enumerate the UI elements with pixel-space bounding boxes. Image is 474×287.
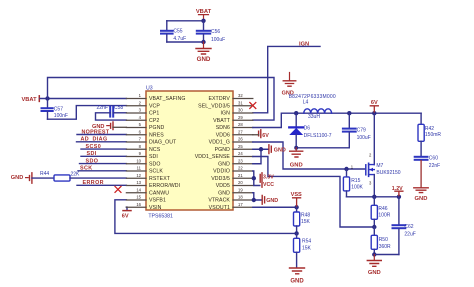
svg-text:6V: 6V [262, 133, 269, 139]
power port GND (pin18 VTRACK) [262, 195, 278, 204]
svg-text:100R: 100R [378, 213, 390, 219]
svg-text:B82472P6333M000: B82472P6333M000 [289, 94, 336, 100]
node pin18 junction [252, 198, 256, 202]
transistor M7 [351, 153, 401, 186]
wire IGN [253, 46, 320, 112]
svg-text:100nF: 100nF [54, 113, 68, 119]
wire VDDIO/VDD3-5/VDD5 tie to VCC [253, 171, 260, 186]
wire SDO [80, 163, 127, 165]
capacitor C62 [393, 197, 416, 255]
wire NOPRST [77, 134, 126, 136]
svg-text:22uF: 22uF [404, 231, 415, 237]
svg-text:GND: GND [368, 270, 381, 276]
svg-text:SCLK: SCLK [149, 169, 163, 175]
svg-text:SDN6: SDN6 [216, 125, 230, 131]
svg-text:C58: C58 [114, 105, 123, 111]
svg-text:IGN: IGN [220, 111, 230, 117]
diode D6 [289, 113, 332, 148]
svg-text:18: 18 [238, 195, 243, 200]
power port VBAT (left) [22, 96, 40, 103]
svg-text:GND: GND [218, 162, 230, 168]
wire C62 bottom to R50 bottom [374, 254, 399, 256]
svg-text:GND: GND [11, 175, 23, 181]
capacitor C56 [197, 21, 225, 43]
svg-text:17: 17 [238, 202, 243, 207]
wire AD_DIAG [77, 141, 127, 143]
svg-text:VDDIO: VDDIO [213, 169, 230, 175]
svg-text:VDD6: VDD6 [216, 133, 230, 139]
svg-text:SDI: SDI [149, 154, 158, 160]
power port VSS [291, 192, 302, 207]
svg-text:R48: R48 [301, 213, 310, 219]
wire source node bus [347, 196, 399, 198]
IC right pins 32-17 [233, 99, 253, 208]
node D6 anode/gnd [294, 146, 298, 150]
svg-text:M7: M7 [376, 163, 383, 169]
wire SCK [78, 170, 126, 172]
ground GND (under D6) [290, 148, 303, 169]
svg-text:VCC: VCC [263, 182, 274, 188]
svg-text:24: 24 [238, 151, 243, 156]
power port GND (left, at R44) [11, 173, 32, 183]
capacitor C58 [96, 105, 127, 120]
capacitor C79 [343, 113, 371, 148]
svg-text:DIAG_OUT: DIAG_OUT [149, 140, 177, 146]
wire VSOUT1 pin17 to VSS node [253, 206, 297, 208]
svg-text:C55: C55 [173, 29, 182, 35]
wire VDD1_G pin26 to gate [253, 142, 366, 169]
power port GND (pin25) [269, 145, 286, 154]
ground GND (under C60) [414, 161, 428, 203]
svg-text:31: 31 [238, 100, 243, 105]
wire SDN6 pin28 to switch node [253, 113, 421, 127]
capacitor C60 [415, 156, 441, 169]
wire VSIN pin16 [125, 207, 128, 210]
svg-text:VDD5: VDD5 [216, 183, 230, 189]
resistor R44 [40, 171, 80, 181]
svg-text:CP2: CP2 [149, 118, 159, 124]
svg-text:VTRACK: VTRACK [208, 198, 230, 204]
node C56 bottom [201, 40, 205, 44]
node source/R46 [372, 195, 376, 199]
wire M7 source [373, 175, 375, 197]
no-connect X pin14 CANWU [115, 186, 121, 192]
svg-text:C60: C60 [429, 156, 438, 162]
svg-text:R50: R50 [379, 237, 388, 243]
svg-text:VSIN: VSIN [149, 205, 162, 211]
node divider mid [372, 225, 376, 229]
svg-text:27: 27 [238, 129, 243, 134]
node VSS junction [294, 205, 298, 209]
svg-text:15: 15 [136, 195, 141, 200]
power port 1.2V [392, 186, 403, 197]
svg-text:VDD1_SENSE: VDD1_SENSE [195, 154, 231, 160]
svg-text:GND: GND [274, 147, 286, 153]
svg-text:R15: R15 [351, 178, 360, 184]
svg-text:VBAT: VBAT [22, 97, 38, 103]
svg-text:NCS: NCS [149, 147, 161, 153]
wire VDD1_SENSE pin24 to divider node [253, 157, 374, 228]
svg-text:21: 21 [238, 173, 243, 178]
wire ERROR [77, 184, 126, 186]
svg-text:R44: R44 [40, 171, 49, 177]
IC left pins 1-16 [126, 99, 146, 208]
svg-text:RSTEXT: RSTEXT [149, 176, 171, 182]
resistor R15 [343, 169, 363, 197]
svg-text:U3: U3 [146, 86, 153, 92]
svg-text:GND: GND [290, 278, 304, 284]
IC right pin numbers [238, 93, 243, 207]
ground GND (under R50) [367, 255, 381, 277]
IC left pin names [149, 96, 185, 211]
svg-text:C79: C79 [357, 128, 366, 134]
svg-text:30: 30 [238, 108, 243, 113]
svg-text:VSFB1: VSFB1 [149, 198, 166, 204]
svg-text:BUK92150: BUK92150 [376, 170, 400, 176]
svg-text:VBATT: VBATT [213, 118, 231, 124]
node VBAT/C56 top [201, 19, 205, 23]
svg-text:3.3V: 3.3V [263, 175, 274, 181]
svg-text:11: 11 [137, 166, 142, 171]
svg-text:L4: L4 [303, 100, 309, 106]
svg-text:NRES: NRES [149, 133, 164, 139]
svg-text:SDO: SDO [149, 162, 161, 168]
svg-text:23: 23 [238, 158, 243, 163]
no-connect X pin31 SEL_VDD3/5 [250, 103, 256, 109]
svg-text:ERROR/WDI: ERROR/WDI [149, 183, 180, 189]
svg-text:25: 25 [238, 144, 243, 149]
svg-text:PGND: PGND [149, 125, 165, 131]
wire GND to R44 [32, 177, 54, 179]
svg-text:22nF: 22nF [429, 163, 440, 169]
node feedback junction [294, 231, 298, 235]
svg-text:360R: 360R [379, 244, 391, 250]
wire top cap bus [167, 20, 204, 22]
svg-text:15K: 15K [302, 245, 312, 251]
node R50 bottom [372, 252, 376, 256]
svg-text:VSOUT1: VSOUT1 [209, 205, 230, 211]
power port GND (pin5 PGND) [92, 122, 126, 130]
svg-text:13: 13 [136, 180, 141, 185]
svg-text:100K: 100K [351, 185, 363, 191]
svg-text:C57: C57 [54, 106, 63, 112]
inductor L4 [289, 94, 336, 120]
resistor R54 [294, 233, 312, 267]
svg-text:GND: GND [415, 196, 428, 202]
svg-text:CANWU: CANWU [149, 191, 169, 197]
svg-text:100uF: 100uF [211, 37, 225, 43]
wire M7 drain [373, 113, 375, 164]
svg-text:150mR: 150mR [425, 132, 442, 138]
capacitor C55 [161, 21, 186, 42]
node gate junction [344, 167, 348, 171]
resistor R50 [371, 227, 391, 255]
svg-text:16: 16 [136, 202, 141, 207]
svg-text:R54: R54 [302, 238, 311, 244]
node 6V rail / M7 drain [372, 111, 376, 115]
svg-text:TPS65381: TPS65381 [148, 214, 173, 220]
svg-text:VDD3/5: VDD3/5 [211, 176, 230, 182]
svg-text:14: 14 [136, 187, 141, 192]
power port VCC 3.3V [260, 173, 274, 188]
resistor R48 [294, 207, 311, 233]
svg-text:6V: 6V [122, 214, 129, 220]
svg-text:D6: D6 [304, 126, 311, 132]
svg-text:VDD1_G: VDD1_G [209, 140, 230, 146]
svg-text:22K: 22K [71, 172, 81, 178]
wire C57 bottom to VCP pin2 [48, 106, 127, 120]
wire GND pin19 / VTRACK pin18 tie [253, 193, 262, 200]
wire diode/C79 ground bus [296, 147, 349, 149]
svg-text:GND: GND [218, 191, 230, 197]
svg-text:PGND: PGND [215, 147, 231, 153]
power port 6V (pin27 VDD6) [253, 130, 269, 139]
node pin21 VCC junction [252, 176, 256, 180]
ground GND (under R54) [290, 268, 305, 284]
svg-text:GND: GND [197, 56, 211, 63]
wire R44 to RSTEXT pin12 [70, 177, 126, 179]
svg-text:19: 19 [238, 187, 243, 192]
svg-text:12: 12 [136, 173, 141, 178]
IC left pin numbers [136, 93, 141, 207]
svg-text:GND: GND [290, 162, 303, 168]
node VBAT junction [45, 96, 49, 100]
svg-text:10: 10 [136, 158, 141, 163]
svg-text:15K: 15K [301, 219, 311, 225]
svg-text:CP1: CP1 [149, 111, 159, 117]
wire bottom cap bus [167, 41, 204, 43]
node source/C62 [397, 195, 401, 199]
node L4/C79 [347, 111, 351, 115]
wire VSFB1 pin15 to feedback node [115, 200, 297, 234]
svg-text:22: 22 [238, 166, 243, 171]
svg-text:VCP: VCP [149, 104, 160, 110]
wire PGND pin25 / GND pin23 tie [253, 149, 268, 164]
svg-text:R46: R46 [378, 206, 387, 212]
capacitor C57 [42, 99, 68, 120]
wire SCS0 [81, 148, 126, 150]
ground GND (top, under C56) [196, 42, 211, 63]
wire SDI [81, 155, 126, 157]
node switch node (D6) [294, 111, 298, 115]
svg-text:20: 20 [238, 180, 243, 185]
op-amp U3 (IC TPS65381 body) [146, 86, 233, 220]
svg-text:R42: R42 [425, 126, 434, 132]
ground GND (floating, above L4) [282, 73, 296, 97]
wire VBAT rail to VBATT pin29 [48, 78, 275, 121]
power port VBAT (top) [196, 9, 212, 21]
svg-text:GND: GND [266, 198, 278, 204]
svg-text:29: 29 [238, 115, 243, 120]
node pin25 junction [259, 147, 263, 151]
resistor R42 [418, 113, 441, 156]
IC right pin names [195, 96, 231, 211]
power port 6V (VSIN) [122, 211, 131, 220]
power port 6V (rail) [370, 100, 378, 113]
svg-text:28: 28 [238, 122, 243, 127]
svg-text:33uH: 33uH [308, 114, 320, 120]
wire VBAT to pin1 [40, 98, 126, 100]
svg-text:26: 26 [238, 137, 243, 142]
svg-text:EXTDRV: EXTDRV [208, 96, 230, 102]
svg-text:VBAT_SAFING: VBAT_SAFING [149, 96, 185, 102]
svg-text:DFLS1100-7: DFLS1100-7 [304, 133, 332, 139]
svg-text:C56: C56 [211, 29, 220, 35]
svg-text:100uF: 100uF [357, 135, 371, 141]
svg-text:SEL_VDD3/5: SEL_VDD3/5 [198, 104, 230, 110]
svg-text:4.7uF: 4.7uF [173, 36, 186, 42]
svg-text:22nF: 22nF [97, 105, 108, 111]
resistor R46 [371, 197, 391, 227]
svg-text:C62: C62 [404, 224, 413, 230]
svg-text:32: 32 [238, 93, 243, 98]
